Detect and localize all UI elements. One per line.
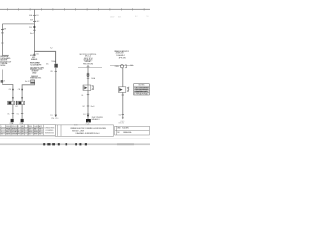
svg-text:OL: OL: [7, 113, 9, 115]
svg-text:P-2B: P-2B: [86, 124, 90, 126]
tick under junction: [33, 29, 36, 31]
svg-text:N1: N1: [147, 16, 149, 18]
svg-text:4160V: 4160V: [110, 17, 114, 19]
bus tick marks: [7, 8, 144, 10]
svg-text:M-1: M-1: [130, 65, 133, 67]
wire: feed to branch 2 from feeder A: [22, 83, 34, 101]
wire below starter M2: [21, 105, 23, 119]
right column end arrow: [122, 117, 124, 119]
starter M1 label: [16, 101, 17, 105]
feeder A label block: [30, 55, 45, 79]
bottom border band: [0, 143, 150, 145]
motor M1: [11, 119, 14, 122]
svg-text:RB: RB: [34, 128, 36, 130]
transformer T2 dark box: [54, 64, 57, 68]
tick + label on feeder C: [55, 70, 57, 72]
svg-text:SW: SW: [3, 28, 6, 30]
wire: left column lower segment: [1, 70, 3, 85]
svg-text:100A MLO: 100A MLO: [116, 54, 125, 57]
svg-text:3: 3: [1, 131, 2, 133]
breaker U1 box with triangle: [83, 85, 91, 90]
contactor arrow branch 2: [21, 97, 23, 99]
title block: drawing number cell: [115, 126, 150, 135]
svg-text:ISSUE: ISSUE: [6, 126, 11, 128]
tick + label: [12, 113, 14, 115]
svg-text:5: 5: [128, 89, 129, 91]
svg-text:No.12: No.12: [25, 81, 30, 83]
svg-text:96: 96: [39, 134, 41, 136]
wire: middle column x=88: [87, 65, 89, 119]
bracket contacts right of U1: [92, 86, 94, 90]
svg-text:NOTES: NOTES: [139, 85, 146, 87]
bus MAIN-BUS: [0, 8, 150, 10]
arrowhead end of feeder C: [55, 115, 57, 118]
switch S1 second tick: [33, 20, 36, 22]
tick: [87, 113, 89, 115]
tick + label: [21, 113, 23, 115]
tick under U2: [122, 94, 124, 96]
notes box: [134, 84, 150, 95]
wire below transformer T2: [55, 68, 57, 115]
stub at y=55.3: [2, 54, 9, 56]
title block: revision table: [0, 125, 28, 136]
svg-text:ISSUED: ISSUED: [118, 122, 125, 124]
wire: horizontal branch y=51.4 to feeder C: [34, 51, 55, 63]
middle group heading text: [80, 54, 97, 65]
svg-text:NTS: NTS: [34, 134, 37, 136]
svg-text:4. TYPICAL FOR ALL: 4. TYPICAL FOR ALL: [134, 93, 148, 96]
svg-text:NOTE 3: NOTE 3: [35, 77, 41, 79]
svg-text:No.4: No.4: [30, 33, 34, 35]
svg-text:E-101 SH1: E-101 SH1: [122, 128, 129, 130]
svg-text:PNL LP-1: PNL LP-1: [51, 118, 58, 120]
svg-text:BUS: BUS: [118, 17, 121, 19]
right group heading text: [114, 50, 129, 60]
tick + label: [87, 77, 89, 79]
meter circle right group: [120, 65, 123, 68]
svg-text:NEMA 1: NEMA 1: [85, 60, 92, 63]
svg-text:3PH 4W: 3PH 4W: [119, 58, 126, 60]
svg-text:SZ1: SZ1: [15, 106, 18, 108]
device mark on branch 1: [12, 89, 14, 91]
svg-text:TORONTO ON: TORONTO ON: [45, 133, 55, 135]
wire: L corner to branch 1: [2, 85, 13, 102]
dashed tie + labels at right meter: [110, 64, 134, 66]
junction stub below tie: [33, 24, 35, 33]
svg-text:J1: J1: [3, 81, 5, 83]
device mark on branch 2: [21, 89, 23, 91]
title block: title cell: [55, 125, 113, 136]
faint line under title block: [0, 136, 114, 138]
bracket right of U2: [127, 88, 129, 92]
junction dot: [33, 26, 35, 28]
breaker U2 box with triangle: [118, 87, 125, 93]
wire: horizontal tie at y=23.9 from left column to feeder: [2, 23, 34, 25]
svg-text:DES: DES: [28, 131, 31, 133]
svg-text:DT: DT: [39, 131, 41, 133]
panel bus line middle group: [78, 67, 102, 69]
tap box TB1 on left column: [1, 80, 3, 82]
svg-text:SW: SW: [30, 19, 33, 21]
svg-text:2: 2: [1, 128, 2, 130]
bus circuit number labels: [110, 16, 149, 18]
tick + label under U1: [87, 94, 89, 96]
ticks on feeder A below branch: [33, 53, 35, 55]
svg-text:OL: OL: [81, 95, 83, 97]
graphic scale bar: [43, 143, 87, 145]
svg-text:FAN AHU-1: FAN AHU-1: [92, 118, 100, 121]
svg-text:T-1 500 KVA 3PH: T-1 500 KVA 3PH: [30, 64, 42, 67]
svg-text:DIAGRAM - SUBSTATION No.1: DIAGRAM - SUBSTATION No.1: [76, 132, 100, 135]
tick at y=43: [1, 42, 3, 44]
svg-text:N-2: N-2: [135, 16, 138, 18]
svg-text:REV FOR: REV FOR: [12, 126, 20, 128]
svg-text:T-2: T-2: [50, 47, 52, 49]
svg-text:1408-E-001-A: 1408-E-001-A: [123, 131, 132, 134]
starter M1 box: [8, 101, 15, 104]
bracket right of meter: [125, 65, 127, 68]
motor M2: [21, 119, 24, 122]
svg-text:DESCRIPT: DESCRIPT: [12, 134, 20, 136]
svg-text:NOTE 4: NOTE 4: [0, 65, 5, 67]
label block left feeder: [0, 55, 12, 67]
switch S2 ticks on left column: [1, 29, 4, 31]
mini-box on feeder A: [31, 80, 35, 84]
svg-text:600A BUS: 600A BUS: [31, 58, 38, 61]
CT double circle: [87, 73, 89, 75]
tick + label lower right column: [122, 113, 124, 115]
svg-text:No.8: No.8: [91, 106, 95, 108]
title block: approvals cells: [28, 125, 55, 136]
tick + labels mid lower: [87, 105, 89, 107]
wire: feeder drop from bus at x=34.4: [33, 9, 35, 55]
wire: right column x=122.8: [122, 68, 124, 118]
svg-text:DWG 2: DWG 2: [32, 73, 36, 75]
svg-text:1: 1: [1, 126, 2, 128]
motor M3: [86, 119, 91, 122]
svg-text:OL: OL: [17, 113, 19, 115]
switch S1 tick on feeder: [33, 14, 36, 16]
svg-text:REV 2: REV 2: [6, 131, 11, 133]
svg-text:EF: EF: [22, 131, 24, 133]
wire: left column drop x=2.4: [1, 24, 3, 56]
wire below starter M1: [12, 105, 14, 119]
starter M2 box: [18, 101, 25, 104]
contactor arrow branch 1: [12, 97, 14, 99]
